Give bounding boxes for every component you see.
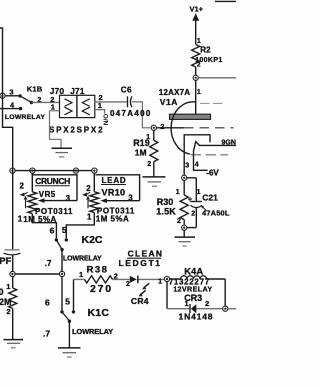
svg-text:1: 1 — [158, 276, 162, 285]
svg-text:2: 2 — [197, 61, 201, 68]
svg-text:1M 5%A: 1M 5%A — [96, 214, 129, 223]
svg-text:.7: .7 — [43, 328, 50, 338]
svg-text:1N4148: 1N4148 — [179, 312, 214, 322]
svg-text:2: 2 — [126, 281, 130, 288]
svg-text:1: 1 — [87, 213, 92, 222]
svg-text:.7: .7 — [45, 259, 52, 268]
svg-text:PF: PF — [0, 256, 12, 267]
svg-text:1: 1 — [197, 38, 201, 45]
svg-text:2: 2 — [191, 211, 195, 218]
svg-text:1M: 1M — [135, 147, 147, 157]
svg-text:LEDGT1: LEDGT1 — [119, 258, 162, 268]
svg-text:47A50L: 47A50L — [202, 208, 230, 217]
svg-text:LOWRELAY: LOWRELAY — [63, 255, 102, 262]
svg-text:2: 2 — [6, 307, 10, 316]
svg-text:VR5: VR5 — [39, 190, 56, 199]
svg-text:2: 2 — [20, 182, 25, 191]
svg-text:270: 270 — [90, 283, 113, 295]
svg-text:047A400: 047A400 — [110, 109, 152, 118]
svg-text:6: 6 — [50, 226, 55, 236]
svg-text:2: 2 — [160, 122, 164, 131]
svg-text:1: 1 — [146, 134, 150, 141]
svg-text:2M: 2M — [0, 297, 12, 307]
svg-text:2: 2 — [177, 218, 181, 225]
svg-text:K1B: K1B — [27, 85, 43, 94]
svg-text:1: 1 — [176, 189, 180, 196]
svg-text:1: 1 — [197, 89, 201, 96]
svg-text:1: 1 — [197, 189, 201, 196]
svg-text:9GND: 9GND — [222, 140, 237, 147]
svg-text:CLEAN: CLEAN — [128, 249, 164, 259]
svg-text:R38: R38 — [87, 264, 109, 275]
svg-text:V1A: V1A — [160, 97, 178, 107]
svg-text:CRUNCH: CRUNCH — [35, 176, 70, 186]
svg-text:12AX7A: 12AX7A — [159, 88, 190, 97]
svg-text:0: 0 — [0, 287, 4, 297]
svg-text:C21: C21 — [202, 192, 218, 202]
svg-text:VR10: VR10 — [102, 188, 126, 198]
svg-text:4: 4 — [195, 162, 199, 169]
svg-text:1: 1 — [185, 299, 189, 308]
svg-text:V1+: V1+ — [190, 5, 204, 14]
svg-text:SPX2SPX2: SPX2SPX2 — [49, 125, 104, 134]
svg-text:6: 6 — [45, 297, 50, 307]
svg-text:1: 1 — [79, 270, 83, 279]
svg-text:R2: R2 — [200, 45, 211, 54]
svg-text:3: 3 — [66, 194, 71, 203]
svg-text:2: 2 — [205, 299, 209, 308]
svg-text:1: 1 — [18, 214, 23, 223]
svg-text:5: 5 — [65, 296, 70, 306]
svg-text:LOWRELAY: LOWRELAY — [72, 327, 113, 336]
svg-text:LOWRELAY: LOWRELAY — [5, 114, 45, 121]
svg-text:C6: C6 — [121, 86, 132, 95]
svg-text:K1C: K1C — [88, 307, 110, 319]
svg-text:2: 2 — [86, 184, 91, 193]
svg-text:5: 5 — [62, 225, 67, 235]
svg-text:K2C: K2C — [82, 234, 103, 246]
svg-text:2: 2 — [147, 161, 151, 168]
svg-text:-6V: -6V — [206, 169, 219, 178]
svg-text:3: 3 — [185, 162, 189, 169]
svg-text:K4A: K4A — [184, 266, 203, 277]
svg-text:1: 1 — [6, 282, 10, 291]
svg-text:N/O: N/O — [103, 114, 110, 126]
svg-text:CR4: CR4 — [131, 296, 149, 306]
svg-text:LEAD: LEAD — [102, 176, 127, 185]
svg-text:1.5K: 1.5K — [156, 206, 176, 216]
